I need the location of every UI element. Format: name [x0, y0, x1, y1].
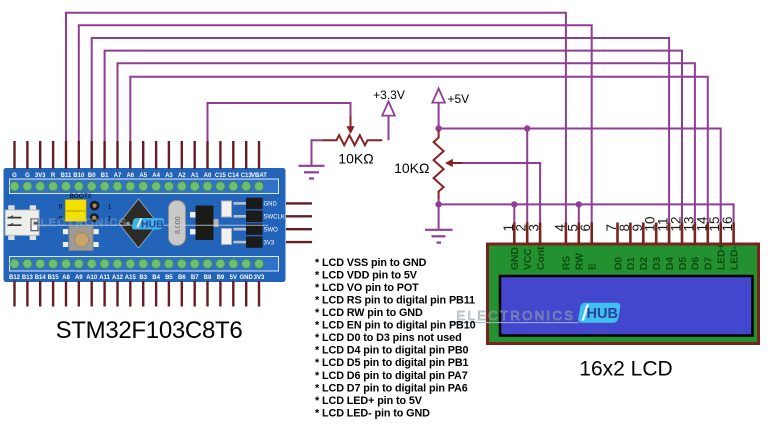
svg-text:* LCD LED+ pin to 5V: * LCD LED+ pin to 5V — [315, 395, 423, 407]
16x2 LCD module — [488, 244, 759, 344]
svg-text:* LCD VO pin to POT: * LCD VO pin to POT — [315, 282, 419, 294]
svg-text:* LCD D6 pin to digital pin PA: * LCD D6 pin to digital pin PA7 — [315, 370, 468, 382]
svg-text:SWCLK: SWCLK — [264, 215, 285, 221]
LCD pin 7 D0 — [604, 223, 624, 271]
wire drop to LCD pin 5 RW — [578, 204, 580, 222]
junction at pot bottom / GND rail — [435, 201, 441, 207]
svg-text:A10: A10 — [86, 275, 98, 281]
svg-text:D1: D1 — [626, 257, 637, 270]
svg-text:5V: 5V — [230, 275, 237, 281]
svg-text:A12: A12 — [112, 275, 124, 281]
svg-text:* LCD D0 to D3 pins not used: * LCD D0 to D3 pins not used — [315, 332, 462, 344]
svg-text:GND: GND — [510, 247, 521, 270]
wire PB1 to LCD D5 (pin 12) — [105, 51, 682, 223]
LCD pin 6 E — [578, 223, 598, 271]
wire PA0 to potentiometer wiper — [208, 103, 351, 141]
svg-text:STM32F103C8T6: STM32F103C8T6 — [56, 317, 243, 344]
wire PB0 to LCD D4 (pin 11) — [92, 38, 669, 223]
svg-text:B9: B9 — [217, 275, 225, 281]
svg-text:A9: A9 — [75, 275, 83, 281]
LCD pin 4 RS — [552, 223, 572, 271]
LCD pin 11 D4 — [656, 217, 676, 270]
wire pot wiper to LCD pin 3 Cont — [462, 163, 540, 223]
LCD pin 2 VCC — [514, 223, 534, 271]
svg-text:16: 16 — [720, 216, 735, 231]
svg-text:1: 1 — [108, 204, 112, 211]
svg-text:6: 6 — [578, 224, 593, 232]
wire drop to LCD pin 2 VCC — [526, 129, 528, 223]
svg-text:LED+: LED+ — [717, 243, 728, 270]
junction at +5V rail / pot top — [435, 125, 441, 131]
bottom pin name labels — [9, 275, 265, 281]
svg-text:B15: B15 — [48, 275, 60, 281]
svg-text:3V3: 3V3 — [254, 275, 265, 281]
svg-text:GND: GND — [264, 202, 278, 208]
svg-text:0: 0 — [59, 204, 63, 211]
bottom header pins (20) — [15, 281, 260, 307]
SWD header (GND SWCLK SWO 3V3) — [234, 198, 285, 248]
svg-text:B3: B3 — [139, 275, 147, 281]
LCD screen — [500, 276, 753, 336]
junction at pin1 drop — [511, 201, 517, 207]
svg-text:+5V: +5V — [448, 92, 470, 106]
svg-text:VBAT: VBAT — [251, 173, 267, 179]
svg-text:D5: D5 — [678, 257, 689, 270]
top pin header pads strip — [10, 179, 279, 194]
svg-text:B11: B11 — [61, 173, 72, 179]
wire GND rail to LCD pins 1,5,16 — [439, 199, 734, 223]
svg-text:VCC: VCC — [523, 248, 534, 270]
svg-text:A4: A4 — [152, 173, 160, 179]
svg-text:* LCD VDD pin to 5V: * LCD VDD pin to 5V — [315, 269, 418, 281]
power +3.3V symbol — [382, 102, 395, 141]
svg-text:D3: D3 — [652, 257, 663, 270]
svg-text:10KΩ: 10KΩ — [338, 151, 373, 167]
ground symbol (contrast pot) — [425, 230, 453, 243]
svg-text:3: 3 — [527, 224, 542, 232]
svg-text:R: R — [51, 173, 56, 179]
reset button — [63, 226, 99, 251]
svg-text:A5: A5 — [139, 173, 147, 179]
svg-text:B0: B0 — [88, 173, 96, 179]
svg-text:C15: C15 — [215, 173, 227, 179]
svg-text:B5: B5 — [165, 275, 173, 281]
wire pot left terminal to ground — [312, 140, 322, 165]
svg-text:ELECTRONICS: ELECTRONICS — [32, 217, 128, 229]
wire PB11 to LCD RS (pin 4) — [66, 13, 566, 223]
wire PA6 to LCD D7 (pin 14) — [130, 77, 708, 223]
potentiometer 10K (LCD contrast) — [434, 131, 463, 200]
wire PA7 to LCD D6 (pin 13) — [118, 63, 695, 222]
svg-text:* LCD RS pin to digital pin PB: * LCD RS pin to digital pin PB11 — [315, 295, 475, 307]
LCD pin 12 D5 — [669, 216, 689, 270]
svg-text:B12: B12 — [9, 275, 21, 281]
svg-text:HUB: HUB — [141, 219, 164, 231]
wire drop to LCD pin 1 GND — [513, 204, 515, 222]
LCD pin 16 LED- — [720, 216, 740, 270]
svg-text:* LCD D7 pin to digital pin PA: * LCD D7 pin to digital pin PA6 — [315, 382, 468, 394]
svg-text:D4: D4 — [665, 257, 676, 270]
top pin name labels — [12, 173, 267, 179]
STM32 Blue Pill board — [4, 168, 286, 282]
potentiometer 10K (wired to PA0) — [322, 117, 383, 146]
svg-text:A8: A8 — [62, 275, 70, 281]
svg-text:B13: B13 — [22, 275, 34, 281]
svg-text:B10: B10 — [73, 173, 85, 179]
LCD pin 14 D7 — [694, 216, 714, 270]
svg-text:A1: A1 — [191, 173, 199, 179]
svg-text:A11: A11 — [99, 275, 110, 281]
svg-text:SWO: SWO — [264, 228, 279, 234]
svg-text:* LCD LED- pin to GND: * LCD LED- pin to GND — [315, 407, 430, 419]
LCD pin 13 D6 — [681, 216, 701, 270]
svg-text:G: G — [12, 173, 17, 179]
svg-text:D7: D7 — [704, 257, 715, 270]
LCD pin 1 GND — [501, 223, 521, 271]
USB connector — [5, 205, 39, 240]
svg-text:+3.3V: +3.3V — [373, 88, 405, 102]
connection notes list — [315, 257, 476, 420]
svg-text:HUB: HUB — [587, 306, 618, 322]
svg-text:BOOT0: BOOT0 — [69, 193, 91, 200]
svg-text:G: G — [25, 173, 30, 179]
svg-text:GND: GND — [240, 275, 254, 281]
svg-text:* LCD VSS pin to GND: * LCD VSS pin to GND — [315, 257, 427, 269]
svg-text:D6: D6 — [691, 257, 702, 270]
svg-text:10KΩ: 10KΩ — [394, 160, 429, 176]
svg-text:3V3: 3V3 — [35, 173, 46, 179]
svg-text:3V3: 3V3 — [264, 240, 275, 246]
SMD components — [222, 201, 232, 245]
wire pot bottom to ground — [438, 204, 440, 229]
junction at pin5 drop — [576, 201, 582, 207]
LCD pin 15 LED+ — [707, 216, 727, 270]
svg-text:LED-: LED- — [729, 245, 740, 270]
svg-text:* LCD D4 pin to digital pin PB: * LCD D4 pin to digital pin PB0 — [315, 345, 469, 357]
svg-text:A6: A6 — [126, 173, 134, 179]
svg-text:B4: B4 — [152, 275, 160, 281]
svg-text:C14: C14 — [228, 173, 240, 179]
junction at VCC drop — [524, 125, 530, 131]
svg-text:D2: D2 — [639, 257, 650, 270]
LCD pin 8 D1 — [617, 223, 637, 271]
svg-text:* LCD RW pin to GND: * LCD RW pin to GND — [315, 307, 423, 319]
voltage regulator IC — [190, 206, 219, 241]
svg-text:* LCD EN pin to digital pin PB: * LCD EN pin to digital pin PB10 — [315, 320, 476, 332]
svg-text:B8: B8 — [204, 275, 212, 281]
LCD pin 5 RW — [565, 223, 585, 271]
svg-text:A0: A0 — [204, 173, 212, 179]
svg-text:A15: A15 — [125, 275, 137, 281]
svg-text:B1: B1 — [101, 173, 109, 179]
svg-text:RS: RS — [562, 256, 573, 270]
wire PB10 to LCD E (pin 6) — [79, 25, 592, 222]
SWD header pins — [286, 203, 312, 242]
svg-text:B7: B7 — [191, 275, 199, 281]
svg-text:16x2 LCD: 16x2 LCD — [579, 358, 672, 381]
power +5V symbol — [432, 89, 445, 129]
svg-text:* LCD D5 pin to digital pin PB: * LCD D5 pin to digital pin PB1 — [315, 357, 469, 369]
svg-text:E: E — [588, 263, 599, 270]
svg-text:A7: A7 — [114, 173, 122, 179]
ground symbol (left pot) — [299, 166, 325, 179]
MCU chip STM32F103 (rotated package) — [119, 199, 158, 248]
svg-text:D0: D0 — [613, 257, 624, 270]
BOOT0 jumper block — [59, 193, 112, 222]
top header pins (20) — [15, 141, 260, 169]
LCD pin 9 D2 — [630, 223, 650, 271]
svg-text:B6: B6 — [178, 275, 186, 281]
bottom pin header pads strip — [10, 257, 279, 272]
svg-text:Cont: Cont — [536, 246, 547, 270]
watermark on board — [32, 217, 268, 231]
wire +5V rail to LCD VCC and LED+ — [439, 129, 721, 223]
LCD pin 3 Cont — [527, 223, 547, 271]
crystal 8.000 MHz — [169, 201, 186, 246]
svg-text:A2: A2 — [178, 173, 186, 179]
LCD pin 10 D3 — [643, 216, 663, 270]
watermark on LCD — [450, 303, 622, 323]
svg-text:A3: A3 — [165, 173, 173, 179]
svg-text:B14: B14 — [35, 275, 47, 281]
svg-text:RW: RW — [575, 253, 586, 270]
